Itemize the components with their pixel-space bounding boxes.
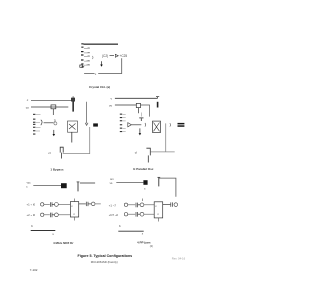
capacitor C13 — [171, 202, 173, 206]
IC U2 pin stubs — [36, 115, 41, 132]
svg-text:+1 ¬ i0: +1 ¬ i0 — [27, 203, 36, 207]
svg-text:4 PP (yen: 4 PP (yen — [137, 241, 151, 245]
svg-text:E Parallel Osc: E Parallel Osc — [133, 167, 153, 171]
capacitor C11 — [136, 203, 140, 208]
port P6 — [124, 203, 127, 206]
svg-text:vo: vo — [109, 104, 113, 108]
IC U2 pin labels — [33, 114, 35, 135]
resistor R1 — [71, 96, 75, 111]
wire: ground bar — [31, 230, 56, 232]
IC U3 pin stubs — [123, 114, 126, 131]
svg-text:cl: cl — [48, 151, 51, 155]
port P10 — [174, 203, 178, 207]
svg-text:+1 ¬7: +1 ¬7 — [109, 203, 117, 207]
buffer gate A2 — [128, 123, 132, 127]
capacitor C1 on ground return — [80, 65, 84, 67]
wire — [44, 203, 50, 205]
capacitor C10 — [157, 177, 160, 186]
arrow: injection — [85, 102, 88, 126]
wire: output — [79, 203, 86, 205]
capacitor C8 — [50, 213, 54, 218]
capacitor C3 — [156, 97, 159, 108]
wire: branch to crystal — [141, 105, 150, 117]
connector J2 — [178, 123, 185, 127]
transistor Q1 — [68, 121, 78, 143]
ferrite bead FB1 — [61, 183, 67, 188]
wire — [144, 213, 154, 215]
IC U1 pin stubs — [84, 48, 90, 66]
svg-text:+C25: +C25 — [120, 54, 128, 58]
svg-text:+2 ¬ i0: +2 ¬ i0 — [27, 213, 36, 217]
wire — [58, 214, 70, 216]
port P3 — [41, 213, 44, 216]
wire: top rail with drop — [159, 178, 176, 197]
arrow: test point — [53, 130, 56, 136]
svg-text:(2): (2) — [150, 244, 153, 248]
port P2 — [55, 203, 59, 207]
svg-text:4 Mb/s NRZ Dr: 4 Mb/s NRZ Dr — [53, 241, 74, 245]
capacitor C4 — [139, 113, 143, 122]
wire — [144, 204, 154, 206]
connector J1 output — [93, 123, 98, 126]
node N1 — [54, 122, 57, 125]
wire — [131, 124, 141, 126]
wire — [44, 122, 54, 124]
wire — [110, 55, 115, 57]
buffer gate A1 — [41, 120, 42, 125]
svg-text:co: co — [26, 106, 30, 110]
wire — [116, 181, 143, 183]
svg-text:7-102: 7-102 — [30, 268, 38, 272]
node 6 — [169, 123, 172, 126]
arrow: probe — [139, 128, 142, 135]
IC U1 pin labels column — [81, 43, 84, 67]
port P8 — [124, 213, 127, 216]
capacitor C6 — [77, 182, 80, 192]
port P4 — [55, 213, 59, 217]
port P5 — [91, 202, 95, 206]
svg-text:Crystal Ckt. (a): Crystal Ckt. (a) — [89, 85, 110, 89]
wire: VCC top rail — [84, 44, 119, 45]
wire: output — [163, 204, 171, 206]
port P9 — [140, 212, 144, 216]
wire: input line 2 — [31, 106, 68, 108]
wire: supply line — [115, 97, 158, 99]
svg-text:cl: cl — [135, 150, 138, 154]
wire — [128, 204, 135, 206]
wire: ground return bottom — [84, 58, 122, 73]
wire — [58, 203, 70, 205]
wire — [128, 213, 135, 215]
IC U3 pin labels — [120, 114, 122, 133]
pin 8 bracket — [91, 56, 94, 59]
svg-text:+N7 ¬0: +N7 ¬0 — [109, 213, 119, 217]
crystal Y2 — [153, 121, 161, 132]
svg-text:Rev. 04-16: Rev. 04-16 — [172, 256, 186, 260]
svg-text:(C2): (C2) — [102, 54, 108, 58]
capacitor C12 — [136, 212, 140, 217]
capacitor C2 — [51, 105, 56, 115]
wire: VCC rail right — [80, 182, 95, 184]
svg-text:MC12061SD (Family): MC12061SD (Family) — [91, 260, 118, 264]
wire — [44, 214, 50, 216]
IC U4 — [70, 199, 78, 221]
wire: bottom return — [63, 127, 90, 154]
wire: ground bar — [118, 230, 143, 232]
inverter gate — [115, 54, 118, 57]
port P7 — [140, 203, 144, 207]
svg-text:om: om — [110, 178, 114, 181]
wire: input line 2 — [115, 104, 136, 106]
wire — [33, 185, 61, 187]
port P1 — [41, 203, 44, 206]
arrow: output probe — [100, 61, 103, 66]
node 5 — [144, 123, 147, 127]
IC U5 — [143, 199, 163, 222]
crystal Y1 — [60, 147, 63, 158]
capacitor C5 — [146, 148, 150, 162]
wire: bottom return — [151, 123, 175, 152]
wire: input line 1 — [31, 99, 71, 101]
resistor R2 — [136, 103, 140, 113]
svg-text:Figure 5. Typical Configuratio: Figure 5. Typical Configurations — [78, 254, 133, 258]
wire — [95, 203, 101, 205]
capacitor C9 — [86, 202, 91, 206]
svg-text:1 Bypass: 1 Bypass — [50, 167, 64, 171]
ferrite bead FB2 — [143, 180, 147, 185]
capacitor C7 — [50, 202, 54, 207]
